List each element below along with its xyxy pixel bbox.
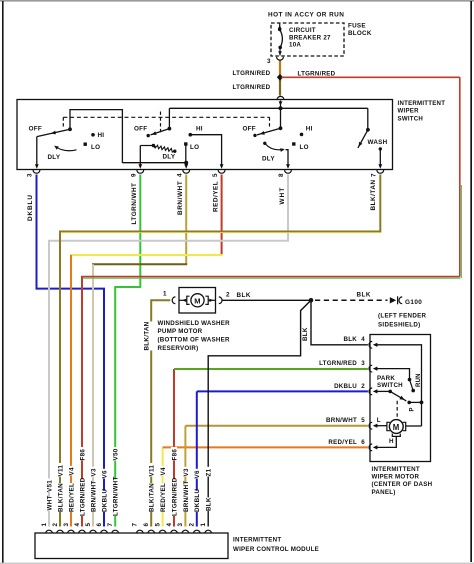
washer pump motor symbol M: [179, 299, 187, 301]
contact LO 3: [292, 142, 295, 145]
svg-text:WIPER MOTOR: WIPER MOTOR: [372, 474, 420, 481]
svg-text:HI: HI: [306, 125, 313, 132]
wire BLK/TAN: switch pin 7 to module left pin 2: [60, 175, 380, 527]
svg-text:V3: V3: [183, 468, 190, 476]
svg-text:1: 1: [200, 523, 207, 527]
page border frame: [0, 0, 474, 2]
wire LT GRN/WHT: switch pin 9 to module left pin 7: [115, 175, 140, 527]
contact RUN lower: [411, 389, 415, 393]
switch wafer 3 arm to OFF: [257, 128, 281, 135]
contact DLY 3 arc: [263, 142, 266, 145]
wire: P contact to ground bus: [409, 401, 421, 403]
wire: motor pin 2 to park switch pivot: [376, 390, 391, 392]
svg-text:(LEFT FENDER: (LEFT FENDER: [378, 313, 427, 320]
svg-text:BLK: BLK: [206, 497, 213, 511]
wire LT GRN/RED: wiper motor pin 3 to module right pin 4: [173, 369, 175, 527]
svg-text:LO: LO: [190, 144, 199, 151]
svg-text:LO: LO: [300, 144, 309, 151]
connector module left pin 2: [57, 530, 64, 533]
contact WASH: [379, 147, 382, 150]
svg-text:BRN/WHT: BRN/WHT: [326, 417, 357, 424]
svg-text:BRN/WHT: BRN/WHT: [90, 481, 97, 512]
svg-text:WHT: WHT: [279, 187, 286, 205]
svg-text:7: 7: [107, 523, 114, 527]
svg-text:BLK: BLK: [302, 327, 309, 341]
svg-text:WASH: WASH: [368, 139, 388, 146]
wire BLK dashed to ground: [315, 299, 388, 301]
svg-text:F86: F86: [79, 449, 86, 461]
ground G100 connector symbol: [390, 297, 396, 303]
connector module left pin 5: [90, 530, 97, 533]
svg-text:OFF: OFF: [29, 126, 42, 133]
svg-text:RED/YEL: RED/YEL: [160, 483, 167, 512]
wash switch pivot: [366, 128, 370, 132]
wire WHT: switch pin 8 to module left pin 1: [49, 175, 288, 527]
wash switch pivot riser: [367, 108, 369, 130]
connector pin 9 of wiper switch: [137, 170, 144, 173]
svg-text:WIPER CONTROL MODULE: WIPER CONTROL MODULE: [233, 546, 319, 553]
svg-text:V3: V3: [90, 468, 97, 476]
svg-text:5: 5: [361, 417, 365, 424]
wire DK BLU: wiper motor pin 2 to module right pin 2: [196, 391, 198, 526]
svg-text:RED/YEL: RED/YEL: [68, 483, 75, 512]
svg-text:CIRCUIT: CIRCUIT: [289, 27, 316, 34]
washer pump connector pin 1: [172, 297, 175, 304]
mechanical link dashed park switch to motor: [396, 401, 398, 419]
svg-text:OFF: OFF: [243, 125, 256, 132]
connector pin 3 of wiper motor: [369, 365, 372, 372]
svg-text:BRN/WHT: BRN/WHT: [183, 481, 190, 512]
circuit breaker 27 symbol: [279, 24, 281, 27]
svg-text:10A: 10A: [289, 42, 301, 49]
svg-text:DKBLU: DKBLU: [101, 489, 108, 512]
svg-text:HI: HI: [98, 132, 105, 139]
svg-text:H: H: [389, 438, 394, 445]
connector module right pin 7: [136, 530, 143, 533]
connector pin 4 of wiper switch: [183, 170, 190, 173]
wire: motor L brush to pin 5: [376, 425, 387, 427]
svg-text:3: 3: [27, 173, 34, 177]
svg-text:PARK: PARK: [377, 375, 395, 382]
variable delay resistor R-DLY: [153, 144, 157, 147]
svg-text:7: 7: [371, 173, 378, 177]
connector module right pin 6: [148, 530, 155, 533]
svg-text:SWITCH: SWITCH: [377, 382, 403, 389]
svg-text:6: 6: [143, 523, 150, 527]
svg-text:SIDESHIELD): SIDESHIELD): [378, 322, 421, 329]
connector module right pin 3: [182, 530, 189, 533]
wire BLK: washer pump pin 2 to splice: [223, 299, 312, 301]
svg-text:PUMP MOTOR: PUMP MOTOR: [158, 328, 203, 335]
svg-text:DLY: DLY: [163, 153, 176, 160]
connector pin 5 of wiper motor: [369, 422, 372, 429]
svg-text:WINDSHIELD WASHER: WINDSHIELD WASHER: [158, 320, 231, 327]
svg-text:DKBLU: DKBLU: [334, 383, 357, 390]
svg-text:7: 7: [132, 523, 139, 527]
switch wafer 3 pivot riser: [280, 108, 282, 128]
connector module right pin 2: [193, 530, 200, 533]
connector pin 8 of wiper switch: [285, 170, 292, 173]
contact HI 3: [300, 133, 304, 137]
svg-text:V6: V6: [101, 470, 108, 478]
wire RED/YEL: switch pin 5 to module left pin 3: [221, 175, 223, 256]
svg-text:WHT: WHT: [46, 495, 53, 510]
connector module right pin 1: [205, 530, 212, 533]
connector module left pin 3: [68, 530, 75, 533]
windshield washer pump motor box: [179, 288, 216, 314]
svg-text:(BOTTOM OF WASHER: (BOTTOM OF WASHER: [158, 336, 230, 343]
svg-text:LTGRN/WHT: LTGRN/WHT: [131, 183, 138, 225]
svg-text:RED/YEL: RED/YEL: [328, 439, 357, 446]
connector module right pin 4: [171, 530, 178, 533]
svg-text:M: M: [393, 423, 400, 432]
svg-text:BLK: BLK: [344, 336, 358, 343]
wire: DLY 3 down to pin 8: [286, 150, 288, 167]
wire: motor pin 3 to RUN contact: [376, 369, 410, 380]
svg-text:HOT IN ACCY OR RUN: HOT IN ACCY OR RUN: [268, 12, 344, 19]
switch wafer 2 pivot: [168, 127, 172, 131]
wire: OFF contact 1 down to pin 3: [36, 137, 38, 167]
connector module left pin 1: [46, 530, 53, 533]
splice: LT GRN/RED junction at breaker output: [277, 74, 283, 81]
switch wafer 2 pivot riser: [168, 108, 170, 128]
svg-text:BLK/TAN: BLK/TAN: [149, 483, 156, 512]
connector module right pin 5: [159, 530, 166, 533]
switch wafer 3 pivot: [279, 126, 283, 130]
wire: motor pin 4 to internal ground bus: [376, 345, 422, 426]
svg-text:RUN: RUN: [416, 373, 422, 387]
contact P: [407, 401, 411, 405]
svg-text:5: 5: [212, 173, 219, 177]
svg-text:WIPER: WIPER: [398, 108, 420, 115]
wire BLK/TAN: module right pin 6 up to washer pump pin 1: [151, 300, 170, 526]
wiper motor symbol M: [389, 420, 403, 434]
svg-text:4: 4: [166, 523, 173, 527]
connector pin 4 of wiper motor: [369, 341, 372, 348]
contact OFF 2: [147, 134, 150, 137]
wire: motor right brush to ground bus: [406, 425, 422, 427]
contact OFF 3: [253, 134, 256, 137]
park switch pivot: [388, 390, 392, 394]
svg-text:1: 1: [41, 523, 48, 527]
svg-text:(CENTER OF DASH: (CENTER OF DASH: [372, 481, 433, 488]
svg-text:8: 8: [278, 173, 285, 177]
label BLK/TAN washer feed: [148, 322, 154, 351]
svg-text:SWITCH: SWITCH: [398, 115, 424, 122]
wire DK BLU: switch pin 3 to module left pin 6: [37, 175, 105, 527]
svg-text:BLOCK: BLOCK: [348, 30, 372, 37]
svg-text:LTGRN/WHT: LTGRN/WHT: [113, 476, 120, 516]
connector pin 5 of wiper switch: [218, 170, 225, 173]
connector: feed into switch: [277, 96, 284, 99]
svg-text:RESERVOIR): RESERVOIR): [158, 345, 199, 352]
switch wafer 2 arm to OFF: [151, 129, 170, 135]
washer pump connector pin 2: [219, 297, 222, 304]
svg-text:BLK: BLK: [357, 292, 371, 299]
svg-text:V11: V11: [57, 465, 64, 477]
svg-text:V4: V4: [68, 467, 75, 475]
svg-text:PANEL): PANEL): [372, 489, 396, 496]
svg-text:4: 4: [176, 173, 183, 177]
connector pin 2 of wiper motor: [369, 388, 372, 395]
wire: WASH contact down to pin 7: [379, 149, 381, 166]
contact LO 2 and drop to pin 4: [184, 142, 187, 145]
intermittent wiper control module box: [35, 533, 228, 559]
svg-text:M: M: [194, 297, 201, 306]
svg-text:2: 2: [189, 523, 196, 527]
intermittent wiper switch box: [17, 100, 393, 170]
wire: motor H brush to pin 6: [376, 436, 397, 447]
svg-text:9: 9: [131, 173, 138, 177]
contact RUN upper: [408, 378, 412, 382]
wire LT GRN/RED: circuit breaker to module left pin 4: [279, 61, 281, 75]
svg-text:4: 4: [74, 523, 81, 527]
contact DLY arc 1: [55, 146, 77, 150]
svg-text:INTERMITTENT: INTERMITTENT: [233, 537, 281, 544]
wire: DLY 2 down to pin 9: [139, 146, 141, 167]
svg-text:HI: HI: [196, 126, 203, 133]
svg-text:BLK/TAN: BLK/TAN: [143, 321, 150, 350]
contact LO 1: [84, 143, 87, 146]
wire BRN/WHT: switch pin 4 to module left pin 5: [185, 175, 187, 265]
svg-text:3: 3: [267, 58, 271, 65]
wire: bus pivot2 to wash pivot: [169, 107, 367, 109]
svg-text:BRN/WHT: BRN/WHT: [177, 181, 184, 215]
svg-text:3: 3: [361, 360, 365, 367]
svg-text:LO: LO: [91, 144, 100, 151]
svg-text:6: 6: [96, 523, 103, 527]
connector module left pin 7: [112, 530, 119, 533]
wire BRN/WHT: wiper motor pin 5 to module right pin 3: [184, 426, 186, 527]
svg-text:2: 2: [361, 383, 365, 390]
svg-text:BLK/TAN: BLK/TAN: [370, 179, 377, 210]
svg-text:6: 6: [361, 439, 365, 446]
connector pin 6 of wiper motor: [369, 444, 372, 451]
node: switch supply bus junction: [279, 106, 283, 110]
svg-text:2: 2: [52, 523, 59, 527]
svg-text:LTGRN/RED: LTGRN/RED: [79, 477, 86, 516]
svg-text:DLY: DLY: [48, 154, 61, 161]
svg-text:V50: V50: [113, 448, 120, 460]
wire RED/YEL: wiper motor pin 6 to module right pin 5: [162, 447, 164, 526]
svg-text:LTGRN/RED: LTGRN/RED: [233, 84, 271, 91]
svg-text:DLY: DLY: [262, 156, 275, 163]
connector pin 3 of fuse block: [277, 57, 284, 60]
contact HI 2 and wire to pin 5: [189, 133, 193, 137]
switch wafer 1 arm to OFF: [37, 129, 70, 136]
svg-text:4: 4: [361, 336, 365, 343]
splice BLK junction: [309, 298, 314, 303]
svg-text:V6: V6: [194, 470, 201, 478]
connector pin 7 of wiper switch: [377, 170, 384, 173]
svg-text:INTERMITTENT: INTERMITTENT: [372, 466, 420, 473]
svg-text:5: 5: [154, 523, 161, 527]
svg-text:3: 3: [63, 523, 70, 527]
connector pin 3 of wiper switch: [33, 170, 40, 173]
svg-text:V51: V51: [46, 480, 53, 492]
svg-text:DKBLU: DKBLU: [194, 489, 201, 512]
svg-text:LTGRN/RED: LTGRN/RED: [298, 71, 336, 78]
svg-text:BREAKER 27: BREAKER 27: [289, 34, 331, 41]
wash switch arm: [358, 130, 368, 148]
switch wafer 1 pivot: [68, 127, 72, 131]
svg-text:OFF: OFF: [134, 126, 147, 133]
fuse block dashed box: [271, 23, 344, 56]
variable delay resistor wire: [140, 145, 153, 147]
svg-text:G100: G100: [405, 299, 422, 306]
svg-text:P: P: [410, 407, 416, 411]
svg-text:2: 2: [226, 292, 230, 299]
svg-text:V11: V11: [149, 465, 156, 477]
svg-text:Z1: Z1: [206, 468, 213, 476]
wire BLK: splice to wiper motor pin 4: [311, 300, 368, 345]
connector module left pin 4: [79, 530, 86, 533]
svg-text:5: 5: [85, 523, 92, 527]
intermittent wiper motor box: [370, 335, 431, 462]
park switch arm: [390, 391, 406, 401]
svg-text:LTGRN/RED: LTGRN/RED: [171, 477, 178, 516]
svg-text:BLK: BLK: [237, 292, 251, 299]
node: ground bus junction: [420, 401, 424, 405]
wire: pivot1 bus to pin 9 drop: [70, 110, 122, 163]
wire: common link to LO junction: [122, 162, 186, 164]
svg-text:V4: V4: [160, 467, 167, 475]
svg-text:BLK/TAN: BLK/TAN: [57, 483, 64, 512]
svg-text:INTERMITTENT: INTERMITTENT: [398, 100, 446, 107]
wire BLK: splice to module right pin 1: [208, 300, 311, 526]
svg-text:3: 3: [177, 523, 184, 527]
mechanical linkage dashed: [63, 116, 269, 118]
svg-text:LTGRN/RED: LTGRN/RED: [319, 360, 357, 367]
svg-text:FUSE: FUSE: [348, 23, 366, 30]
connector module left pin 6: [101, 530, 108, 533]
contact HI 1: [91, 133, 95, 137]
svg-text:DKBLU: DKBLU: [27, 194, 34, 221]
svg-text:RED/YEL: RED/YEL: [212, 181, 219, 212]
svg-text:F86: F86: [171, 449, 178, 461]
svg-text:LTGRN/RED: LTGRN/RED: [233, 70, 271, 77]
svg-text:1: 1: [163, 291, 167, 298]
svg-text:L: L: [377, 417, 381, 424]
